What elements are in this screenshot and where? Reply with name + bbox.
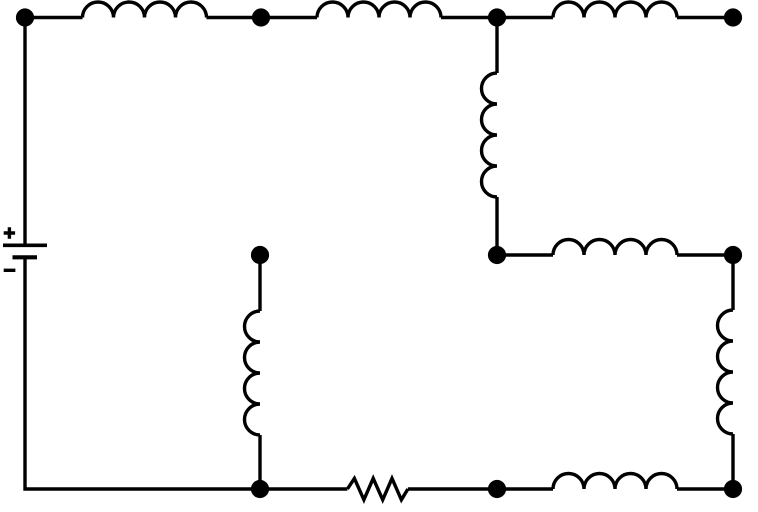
node B	[252, 8, 270, 26]
wire L8 to node J	[677, 487, 733, 490]
wire top: node A to inductor L1	[25, 16, 83, 19]
battery V1 positive plate	[3, 243, 47, 247]
inductor L6	[718, 310, 734, 434]
wire L3 to node D	[677, 16, 733, 19]
inductor L1	[83, 2, 207, 18]
wire node H to resistor R1	[260, 487, 347, 490]
battery plus label	[4, 227, 15, 239]
wire L6 to node J	[731, 434, 734, 489]
inductor L5	[553, 240, 677, 256]
wire node C to inductor L3	[497, 16, 553, 19]
wire node F down to inductor L6	[731, 255, 734, 310]
inductor L3	[553, 2, 677, 18]
wire battery down to bottom-left corner and right to node H	[25, 257, 260, 489]
inductor L8	[553, 473, 677, 489]
inductor L7	[244, 311, 260, 435]
node F	[724, 246, 742, 264]
wire L4 to node E	[495, 197, 498, 255]
wire R1 to node I	[408, 487, 497, 490]
wire L7 to node H	[258, 435, 261, 489]
node G	[251, 246, 269, 264]
node J	[724, 480, 742, 498]
node D	[724, 8, 742, 26]
wire L2 to node C	[441, 16, 497, 19]
battery V1 negative plate	[13, 255, 38, 259]
resistor R1	[347, 478, 408, 499]
node C	[488, 8, 506, 26]
inductor L2	[317, 2, 441, 18]
wire left: node A down to battery	[23, 18, 26, 246]
node A	[16, 8, 34, 26]
battery minus label	[4, 269, 16, 272]
wire L5 to node F	[677, 253, 733, 256]
wire node B to inductor L2	[261, 16, 317, 19]
node E	[488, 246, 506, 264]
wire node I to inductor L8	[497, 487, 553, 490]
inductor L4	[481, 73, 497, 197]
wire L1 to node B	[207, 16, 262, 19]
wire node G down to inductor L7	[258, 255, 261, 311]
node H	[251, 480, 269, 498]
node I	[488, 480, 506, 498]
wire node C down to inductor L4	[495, 18, 498, 74]
wire node E to inductor L5	[497, 253, 553, 256]
